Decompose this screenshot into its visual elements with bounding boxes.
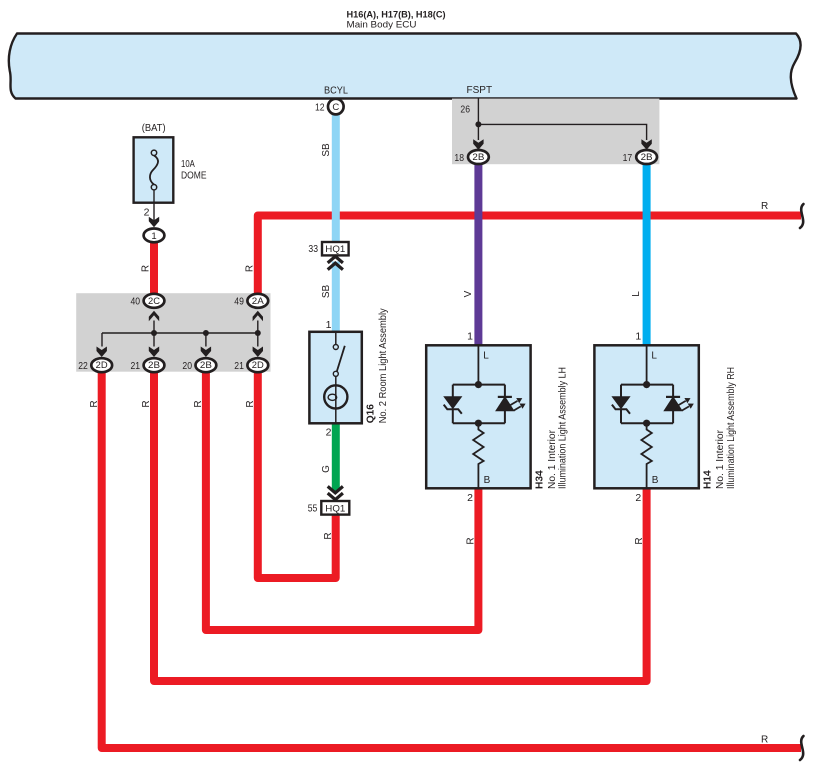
wire fuse pin 2: [153, 190, 155, 222]
wire V purple: [474, 164, 482, 346]
svg-text:2B: 2B: [148, 360, 160, 370]
wire R from 2D-21 to HQ1-55: [258, 370, 336, 578]
node junction 26: [475, 121, 481, 127]
break squiggle top right: [800, 204, 804, 228]
connector 1: [144, 229, 165, 243]
svg-text:1: 1: [151, 231, 156, 242]
svg-text:2D: 2D: [96, 360, 109, 370]
arrow into connector 1: [149, 217, 159, 228]
svg-text:2A: 2A: [252, 296, 264, 306]
svg-text:L: L: [483, 350, 489, 361]
svg-text:R: R: [761, 201, 768, 212]
svg-text:Illumination Light Assembly RH: Illumination Light Assembly RH: [726, 367, 737, 489]
fuse element: [150, 156, 158, 185]
svg-text:2B: 2B: [641, 152, 653, 162]
H34 zener diode: [444, 397, 461, 409]
svg-text:2: 2: [635, 492, 641, 504]
arrow down into 21-2D: [253, 347, 263, 358]
H14 zener diode: [612, 397, 629, 409]
svg-text:R: R: [245, 400, 256, 407]
svg-text:R: R: [634, 537, 645, 544]
svg-text:18: 18: [454, 152, 464, 164]
svg-text:12: 12: [315, 102, 325, 114]
light assembly H14 box: [594, 345, 698, 488]
H14 resistor: [641, 423, 651, 488]
svg-text:No. 1 Interior: No. 1 Interior: [547, 429, 558, 489]
svg-text:Main Body ECU: Main Body ECU: [347, 19, 417, 30]
svg-text:21: 21: [131, 360, 141, 372]
lamp bulb Q16: [324, 385, 347, 408]
svg-text:H34: H34: [535, 470, 546, 489]
svg-text:2: 2: [326, 426, 332, 438]
arrow up from bus to 2A: [253, 311, 263, 322]
chevrons down at HQ1-55: [328, 486, 343, 499]
svg-text:20: 20: [182, 360, 192, 372]
connector 55 HQ1: [321, 501, 349, 515]
H34 LED arrows: [511, 401, 518, 405]
svg-text:No. 1 Interior: No. 1 Interior: [715, 429, 726, 489]
connector 21 2D: [247, 358, 268, 372]
wire L cyan: [643, 164, 651, 346]
arrow into 17-2B: [641, 139, 651, 150]
svg-text:1: 1: [635, 331, 641, 343]
svg-text:R: R: [193, 400, 204, 407]
wire R from 2B-21 to H14: [154, 370, 647, 681]
junction dots on bus: [151, 330, 157, 336]
H14 entry wire: [646, 345, 648, 384]
svg-text:R: R: [323, 532, 334, 539]
left gray junction box: [76, 293, 270, 372]
switch blade: [337, 346, 345, 372]
svg-text:FSPT: FSPT: [467, 85, 493, 96]
room light Q16 box: [309, 332, 361, 424]
arrow into 18-2B: [473, 139, 483, 150]
svg-text:2D: 2D: [252, 360, 265, 370]
connector 12 C: [328, 99, 344, 115]
svg-text:55: 55: [308, 502, 318, 514]
wire bus in FSPT box: [478, 124, 646, 140]
svg-text:BCYL: BCYL: [324, 86, 348, 97]
bus wire in left box: [102, 333, 258, 347]
lamp filament loop: [328, 394, 337, 400]
svg-text:R: R: [466, 537, 477, 544]
connector 22 2D: [91, 358, 112, 372]
H34 LED: [496, 397, 514, 411]
switch contact top: [333, 345, 338, 350]
H14 LED: [664, 397, 682, 411]
wire R from 2D-22 to bottom right: [102, 370, 801, 748]
svg-text:DOME: DOME: [181, 171, 207, 182]
svg-text:B: B: [652, 475, 659, 486]
break squiggle bottom right: [800, 736, 804, 760]
light assembly H34 box: [426, 345, 530, 488]
arrow down into 22-2D: [97, 347, 107, 358]
H14 top junction: [643, 381, 650, 388]
svg-text:49: 49: [234, 296, 244, 308]
svg-text:21: 21: [234, 360, 244, 372]
H14 LED arrows: [679, 401, 686, 405]
svg-text:2B: 2B: [200, 360, 212, 370]
svg-text:33: 33: [308, 243, 318, 255]
svg-text:R: R: [89, 400, 100, 407]
svg-text:HQ1: HQ1: [325, 244, 345, 254]
svg-text:R: R: [761, 734, 768, 745]
H34 top junction: [475, 381, 482, 388]
switch wire top: [335, 332, 337, 345]
wire SB upper: [332, 108, 340, 242]
connector 33 HQ1: [322, 242, 349, 255]
wire R fuse-to-2C: [150, 240, 158, 295]
svg-text:Illumination Light Assembly LH: Illumination Light Assembly LH: [558, 367, 569, 489]
svg-text:17: 17: [623, 152, 633, 164]
svg-text:2B: 2B: [472, 152, 484, 162]
chevrons up at HQ1-33: [328, 256, 343, 269]
arrow down into 20-2B: [201, 347, 211, 358]
svg-text:C: C: [332, 102, 339, 113]
connector 49 2A: [247, 294, 268, 308]
wire to lamp: [335, 376, 337, 423]
svg-text:Q16: Q16: [366, 404, 377, 424]
H34 entry wire: [477, 345, 479, 384]
arrow down into 21-2B: [149, 347, 159, 358]
arrow up from bus to 2C: [149, 311, 159, 322]
wire G: [332, 423, 340, 491]
switch contact bottom: [333, 371, 338, 376]
Main Body ECU band: [9, 34, 801, 99]
svg-text:26: 26: [460, 104, 470, 116]
H34 branch rails: [453, 385, 505, 424]
svg-text:(BAT): (BAT): [142, 123, 166, 134]
svg-text:B: B: [484, 475, 491, 486]
connector 21 2B: [144, 358, 165, 372]
svg-text:22: 22: [78, 360, 88, 372]
svg-text:2C: 2C: [148, 296, 161, 306]
FSPT gray box: [452, 99, 659, 165]
svg-text:2: 2: [144, 207, 150, 219]
connector 40 2C: [144, 294, 165, 308]
svg-text:No. 2 Room Light Assembly: No. 2 Room Light Assembly: [378, 307, 389, 423]
svg-text:R: R: [244, 265, 255, 272]
wire 2C to bus: [153, 321, 155, 334]
svg-text:V: V: [463, 290, 474, 297]
wire R from 2B-20 to H34: [206, 370, 479, 630]
svg-text:2: 2: [467, 492, 473, 504]
svg-text:1: 1: [326, 319, 332, 331]
svg-text:G: G: [321, 465, 332, 473]
wire R horizontal top to 2A: [258, 216, 801, 296]
svg-text:R: R: [141, 400, 152, 407]
connector 18 2B: [468, 150, 489, 164]
svg-text:H16(A), H17(B), H18(C): H16(A), H17(B), H18(C): [347, 9, 446, 19]
svg-text:L: L: [631, 291, 642, 297]
svg-text:R: R: [141, 265, 152, 272]
H34 bottom junction: [475, 420, 482, 427]
svg-text:40: 40: [131, 296, 141, 308]
wire SB lower: [332, 262, 340, 333]
svg-text:10A: 10A: [181, 159, 195, 170]
svg-text:1: 1: [467, 331, 473, 343]
svg-text:SB: SB: [321, 143, 332, 157]
svg-text:H14: H14: [703, 470, 714, 489]
connector 20 2B: [196, 358, 217, 372]
svg-text:HQ1: HQ1: [325, 503, 345, 513]
wire 2A to bus: [257, 321, 259, 334]
H34 resistor: [473, 423, 483, 488]
svg-text:SB: SB: [321, 285, 332, 299]
H14 bottom junction: [643, 420, 650, 427]
svg-text:L: L: [651, 350, 657, 361]
wire pin26: [477, 99, 479, 125]
H14 branch rails: [621, 385, 673, 424]
connector 17 2B: [636, 150, 657, 164]
